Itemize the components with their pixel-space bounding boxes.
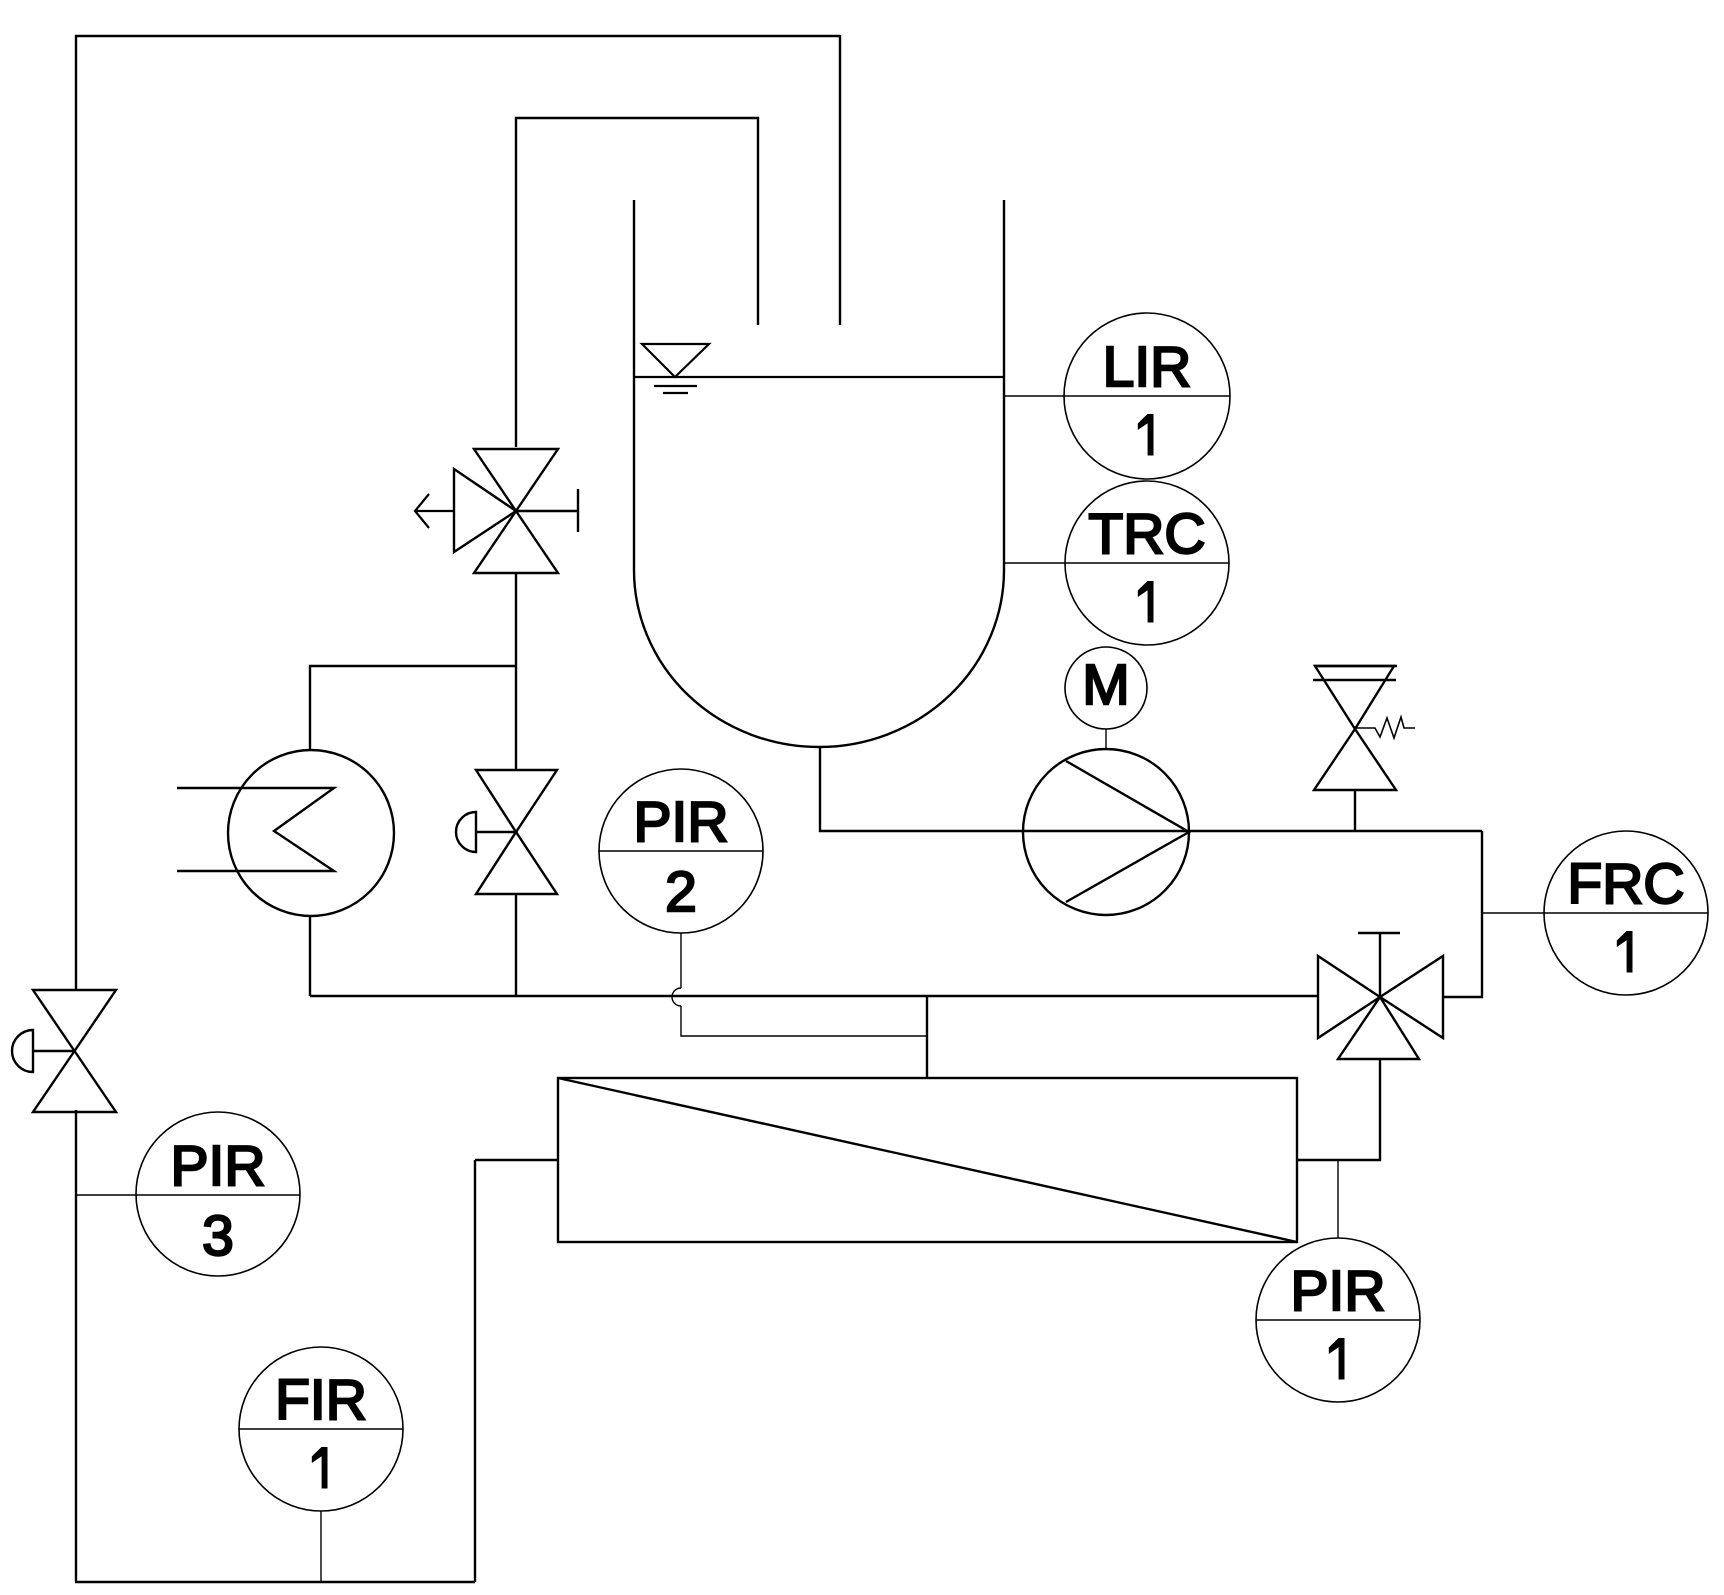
- wire: V3 bottom to separator right side: [1298, 1059, 1380, 1160]
- svg-text:TRC: TRC: [1088, 502, 1205, 566]
- 3-way valve V1: [454, 449, 578, 573]
- wire: separator left inlet: [475, 1159, 558, 1161]
- instrument FRC1: [1482, 912, 1545, 914]
- svg-text:PIR: PIR: [1290, 1259, 1385, 1323]
- wire: V2 outlet down: [515, 894, 517, 996]
- wire: branch to heat exchanger: [310, 666, 516, 751]
- instrument LIR1: [1004, 395, 1065, 397]
- svg-text:FIR: FIR: [275, 1368, 367, 1432]
- wire: separator feed drop: [926, 996, 928, 1078]
- svg-text:M: M: [1082, 653, 1129, 717]
- wire: inner header pipe to tank: [516, 118, 758, 447]
- svg-text:PIR: PIR: [633, 790, 728, 854]
- hand valve V5: [12, 990, 116, 1112]
- liquid level marker: [634, 344, 1004, 393]
- wire: tank outlet / pump suction and discharge: [820, 747, 1482, 831]
- vent arrow at V1: [415, 494, 454, 528]
- separator S1: [558, 1078, 1297, 1242]
- heat exchanger E1: [177, 750, 394, 916]
- svg-text:PIR: PIR: [170, 1134, 265, 1198]
- wire: outer top header pipe: [75, 35, 840, 37]
- svg-text:FRC: FRC: [1567, 852, 1684, 916]
- motor M: [1065, 647, 1147, 749]
- relief valve V4: [1313, 666, 1415, 831]
- svg-text:2: 2: [665, 860, 697, 924]
- wire: left header pipe lower: [75, 1110, 77, 1581]
- wire: E1 outlet down: [309, 916, 311, 996]
- pump P1: [1023, 749, 1189, 915]
- control valve V2: [456, 770, 557, 894]
- wire: lower main header: [310, 995, 1318, 997]
- instrument PIR3: [76, 1194, 137, 1196]
- tank T1: [634, 200, 1004, 747]
- wire: discharge riser to valve: [1443, 831, 1482, 997]
- wire: bottom return pipe: [75, 1581, 475, 1583]
- impulse line PIR2 with pipe hop: [672, 933, 927, 1036]
- svg-text:LIR: LIR: [1103, 335, 1192, 399]
- wire: left header pipe upper: [75, 35, 77, 990]
- 3-way valve V3: [1318, 933, 1443, 1059]
- instrument PIR2: [599, 769, 763, 933]
- instrument FIR1: [239, 1347, 403, 1511]
- instrument PIR1: [1337, 1160, 1339, 1238]
- wire: riser to separator inlet: [474, 1160, 476, 1582]
- wire: right downcomer into tank: [839, 35, 841, 325]
- wire: V1 outlet down: [515, 573, 517, 770]
- instrument TRC1: [1004, 562, 1065, 564]
- svg-text:3: 3: [202, 1204, 234, 1268]
